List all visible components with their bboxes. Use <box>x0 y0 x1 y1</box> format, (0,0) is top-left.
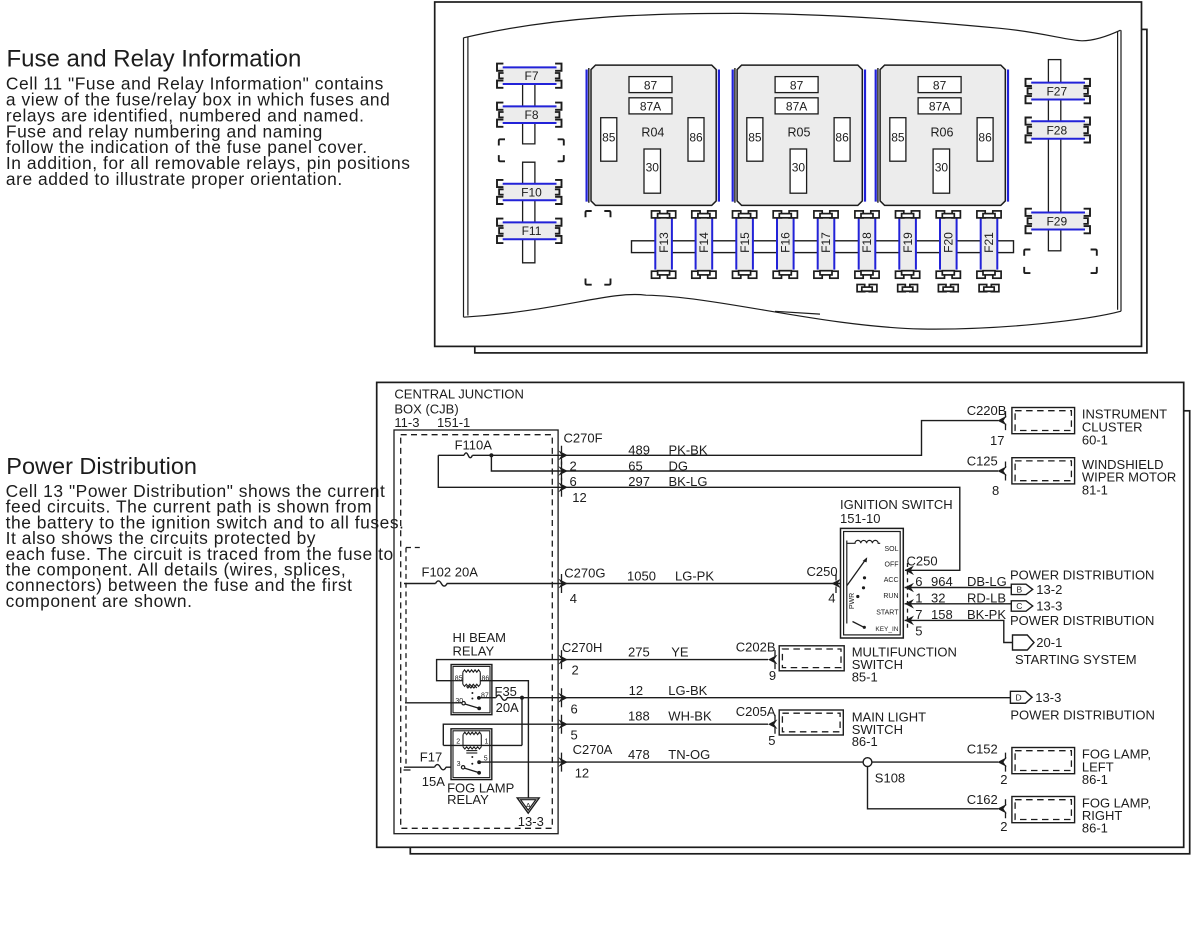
svg-text:POWER DISTRIBUTION: POWER DISTRIBUTION <box>1010 707 1154 722</box>
fuse F28 <box>1026 118 1091 143</box>
svg-text:F16: F16 <box>779 232 793 253</box>
wire S108 to fog lamp right <box>868 767 999 809</box>
svg-text:13-3: 13-3 <box>518 814 544 829</box>
svg-text:S108: S108 <box>875 770 905 785</box>
svg-text:85-1: 85-1 <box>852 670 878 685</box>
junction on F110A output <box>489 453 493 457</box>
svg-text:87: 87 <box>644 79 658 93</box>
svg-text:are added to illustrate proper: are added to illustrate proper orientati… <box>6 169 343 189</box>
svg-text:F20: F20 <box>942 232 956 253</box>
off-page connector C 13-3 <box>1011 601 1032 611</box>
fuse F27 <box>1026 79 1091 103</box>
relay R06 <box>876 65 1008 205</box>
svg-text:F10: F10 <box>521 185 542 199</box>
svg-text:R06: R06 <box>931 126 954 140</box>
svg-text:C: C <box>1016 601 1022 611</box>
svg-text:4: 4 <box>828 590 835 605</box>
wire 158 BK-PK <box>905 620 1013 642</box>
svg-text:20A: 20A <box>496 700 519 715</box>
wire hi-beam coil 86 to ground <box>480 681 528 798</box>
svg-text:86-1: 86-1 <box>1082 821 1108 836</box>
wire 12 LG-BK from F35 to power distribution D <box>507 697 1010 699</box>
svg-text:F14: F14 <box>697 232 711 253</box>
svg-text:12: 12 <box>572 490 586 505</box>
svg-text:R05: R05 <box>788 126 811 140</box>
svg-text:F15: F15 <box>738 232 752 253</box>
svg-text:KEY_IN: KEY_IN <box>875 626 898 633</box>
spare clip marks below F18-F21 <box>857 285 877 292</box>
svg-text:85: 85 <box>891 131 905 145</box>
svg-text:2: 2 <box>1000 772 1007 787</box>
svg-text:8: 8 <box>992 483 999 498</box>
svg-text:PWR: PWR <box>849 593 856 609</box>
svg-text:151-1: 151-1 <box>437 415 470 430</box>
svg-text:2: 2 <box>572 663 579 678</box>
svg-text:1: 1 <box>485 739 489 746</box>
svg-text:4: 4 <box>570 591 577 606</box>
svg-text:C202B: C202B <box>736 640 776 655</box>
svg-text:3: 3 <box>457 761 461 768</box>
splice S108 <box>863 758 872 767</box>
svg-text:30: 30 <box>935 161 949 175</box>
fuse F7 <box>497 64 562 88</box>
svg-text:86-1: 86-1 <box>1082 772 1108 787</box>
wire 297 BK-LG to ignition switch <box>438 455 960 570</box>
svg-text:275: 275 <box>628 644 650 659</box>
svg-text:5: 5 <box>768 733 775 748</box>
CJB dashed box <box>401 435 553 829</box>
svg-text:F27: F27 <box>1046 84 1067 98</box>
svg-text:2: 2 <box>456 739 460 746</box>
svg-text:F35: F35 <box>495 684 517 699</box>
svg-text:2: 2 <box>1000 819 1007 834</box>
svg-text:component are shown.: component are shown. <box>6 591 193 611</box>
fog lamp relay box <box>451 729 492 780</box>
svg-text:13-3: 13-3 <box>1036 599 1062 614</box>
fuse F13 (bottom row) <box>652 211 676 278</box>
svg-text:ACC: ACC <box>884 577 899 584</box>
svg-text:WH-BK: WH-BK <box>668 709 712 724</box>
svg-text:B: B <box>1017 585 1023 595</box>
wire hi-beam coil 85 to C270H <box>437 660 768 681</box>
svg-text:POWER DISTRIBUTION: POWER DISTRIBUTION <box>1010 613 1154 628</box>
fog relay coil <box>463 732 481 734</box>
svg-text:87A: 87A <box>929 100 950 114</box>
ignition coil <box>847 540 880 543</box>
svg-text:R04: R04 <box>641 126 664 140</box>
wire 489 PK-BK to instrument cluster <box>472 421 998 456</box>
empty position marks left of F13 <box>586 211 611 285</box>
svg-text:LG-PK: LG-PK <box>675 568 714 583</box>
svg-text:87A: 87A <box>786 100 807 114</box>
svg-text:85: 85 <box>455 675 463 682</box>
svg-text:F19: F19 <box>901 232 915 253</box>
svg-text:C250: C250 <box>907 554 938 569</box>
ground 13-3 (A) <box>517 798 539 813</box>
svg-text:87: 87 <box>933 79 947 93</box>
wire to hi-beam contact 30 <box>405 702 462 704</box>
svg-text:Fuse and Relay Information: Fuse and Relay Information <box>7 46 302 73</box>
svg-text:85: 85 <box>748 131 762 145</box>
svg-text:6: 6 <box>915 574 922 589</box>
channel between left fuses <box>523 84 535 263</box>
svg-text:RD-LB: RD-LB <box>967 590 1006 605</box>
svg-text:30: 30 <box>792 161 806 175</box>
svg-text:2: 2 <box>570 458 577 473</box>
svg-text:SOL: SOL <box>884 546 898 553</box>
svg-text:C250: C250 <box>807 564 838 579</box>
svg-text:PK-BK: PK-BK <box>669 443 708 458</box>
svg-text:7: 7 <box>915 607 922 622</box>
svg-text:188: 188 <box>628 709 650 724</box>
connector arrow row pin 6 (12 LG-BK) <box>558 693 567 703</box>
svg-text:9: 9 <box>769 668 776 683</box>
hi-beam coil <box>463 670 481 672</box>
svg-text:C220B: C220B <box>967 403 1007 418</box>
fuse F16 (bottom row) <box>773 211 797 278</box>
wire 478 TN-OG from fog contact 5 <box>479 761 998 763</box>
svg-text:12: 12 <box>629 683 643 698</box>
svg-text:F28: F28 <box>1046 123 1067 137</box>
svg-text:30: 30 <box>646 161 660 175</box>
bus bar behind bottom fuses <box>632 241 1014 253</box>
svg-text:86: 86 <box>689 131 703 145</box>
fuse F15 (bottom row) <box>733 211 757 278</box>
svg-text:START: START <box>876 610 899 617</box>
bottom panel front sheet <box>377 382 1184 847</box>
fuse box cover outline <box>464 13 1122 329</box>
svg-text:A: A <box>526 801 531 810</box>
top panel front sheet <box>435 2 1142 346</box>
empty position marks between F8 and F10 <box>499 139 564 161</box>
svg-text:C205A: C205A <box>736 704 776 719</box>
svg-text:C270A: C270A <box>573 742 613 757</box>
svg-text:RELAY: RELAY <box>453 643 495 658</box>
svg-text:5: 5 <box>915 624 922 639</box>
svg-text:5: 5 <box>484 755 488 762</box>
svg-text:F7: F7 <box>524 69 538 83</box>
wire 1050 LG-PK to ignition switch <box>447 583 841 585</box>
svg-text:F13: F13 <box>657 232 671 253</box>
svg-text:6: 6 <box>570 474 577 489</box>
svg-text:YE: YE <box>671 644 689 659</box>
junction after F35 <box>520 696 524 700</box>
fuse F19 (bottom row) <box>896 211 920 278</box>
svg-text:964: 964 <box>931 574 953 589</box>
fuse F18 (bottom row) <box>855 211 879 278</box>
svg-text:12: 12 <box>575 766 589 781</box>
wire F35 junction to fog relay coil 1 <box>521 698 523 746</box>
svg-text:85: 85 <box>602 131 616 145</box>
svg-text:F18: F18 <box>860 232 874 253</box>
svg-text:86: 86 <box>978 131 992 145</box>
wire 964 DB-LG <box>905 587 1012 589</box>
svg-text:151-10: 151-10 <box>840 511 880 526</box>
bottom panel back sheet <box>410 411 1189 854</box>
svg-text:158: 158 <box>931 607 953 622</box>
relay R04 <box>587 65 719 205</box>
fuse F17 (bottom row) <box>814 211 838 278</box>
CJB solid box <box>394 430 558 834</box>
svg-text:13-3: 13-3 <box>1035 690 1061 705</box>
fuse F29 <box>1026 209 1091 234</box>
svg-text:5: 5 <box>571 727 578 742</box>
wire 65 DG to wiper motor <box>491 455 998 471</box>
svg-text:489: 489 <box>628 443 650 458</box>
svg-text:D: D <box>1016 692 1022 702</box>
svg-text:OFF: OFF <box>885 561 899 568</box>
svg-text:RELAY: RELAY <box>447 792 489 807</box>
svg-text:C152: C152 <box>967 741 998 756</box>
svg-text:F102 20A: F102 20A <box>422 564 479 579</box>
svg-text:C162: C162 <box>967 792 998 807</box>
svg-text:F21: F21 <box>982 232 996 253</box>
relay R05 <box>733 65 865 205</box>
svg-text:POWER DISTRIBUTION: POWER DISTRIBUTION <box>1010 568 1154 583</box>
svg-text:65: 65 <box>628 458 642 473</box>
svg-text:BK-LG: BK-LG <box>669 474 708 489</box>
svg-text:297: 297 <box>628 474 650 489</box>
svg-text:87: 87 <box>790 79 804 93</box>
svg-text:60-1: 60-1 <box>1082 432 1108 447</box>
svg-text:86: 86 <box>835 131 849 145</box>
svg-text:17: 17 <box>990 433 1004 448</box>
svg-text:RUN: RUN <box>883 593 898 600</box>
svg-text:F11: F11 <box>522 224 542 238</box>
svg-text:32: 32 <box>931 590 945 605</box>
svg-text:F8: F8 <box>524 108 538 122</box>
wire 188 WH-BK / fog coil 2 branch <box>443 724 768 745</box>
svg-text:478: 478 <box>628 747 650 762</box>
svg-text:F110A: F110A <box>455 438 493 453</box>
svg-text:C125: C125 <box>967 453 998 468</box>
svg-text:86-1: 86-1 <box>852 734 878 749</box>
svg-text:DG: DG <box>669 458 689 473</box>
ignition switch blade <box>847 559 866 586</box>
svg-text:C270F: C270F <box>564 431 603 446</box>
svg-text:87A: 87A <box>640 100 661 114</box>
svg-text:LG-BK: LG-BK <box>668 683 707 698</box>
svg-text:CENTRAL JUNCTION: CENTRAL JUNCTION <box>394 387 524 402</box>
fuse F11 <box>497 219 562 243</box>
fuse F21 (bottom row) <box>977 211 1001 278</box>
svg-text:DB-LG: DB-LG <box>967 574 1007 589</box>
svg-text:IGNITION SWITCH: IGNITION SWITCH <box>840 497 953 512</box>
fuse F10 <box>497 180 562 204</box>
fuse F8 <box>497 103 562 127</box>
hi beam relay box <box>451 665 492 715</box>
svg-text:11-3: 11-3 <box>394 415 419 430</box>
svg-text:1: 1 <box>915 590 922 605</box>
wire through fog relay coil (2 to 1) <box>443 744 522 746</box>
svg-text:F29: F29 <box>1046 214 1067 228</box>
svg-text:F17: F17 <box>420 750 442 765</box>
svg-text:BK-PK: BK-PK <box>967 607 1006 622</box>
bar behind right fuses <box>1048 60 1060 251</box>
svg-text:Power Distribution: Power Distribution <box>6 453 197 479</box>
svg-text:1050: 1050 <box>627 568 656 583</box>
wire 32 RD-LB <box>905 603 1012 605</box>
svg-text:81-1: 81-1 <box>1082 483 1108 498</box>
svg-text:13-2: 13-2 <box>1036 582 1062 597</box>
off-page connector D 13-3 power distribution <box>1010 691 1032 703</box>
svg-text:TN-OG: TN-OG <box>668 747 710 762</box>
CJB inner dashed bus line <box>405 548 407 767</box>
fuse F14 (bottom row) <box>692 211 716 278</box>
svg-text:STARTING SYSTEM: STARTING SYSTEM <box>1015 652 1137 667</box>
svg-text:C270G: C270G <box>564 566 605 581</box>
svg-text:20-1: 20-1 <box>1036 635 1062 650</box>
svg-text:F17: F17 <box>819 232 833 253</box>
empty position marks below F29 <box>1024 250 1097 274</box>
fuse F20 (bottom row) <box>936 211 960 278</box>
svg-text:6: 6 <box>571 702 578 717</box>
svg-text:C270H: C270H <box>562 640 602 655</box>
svg-text:15A: 15A <box>422 774 445 789</box>
top panel back sheet <box>475 29 1147 353</box>
